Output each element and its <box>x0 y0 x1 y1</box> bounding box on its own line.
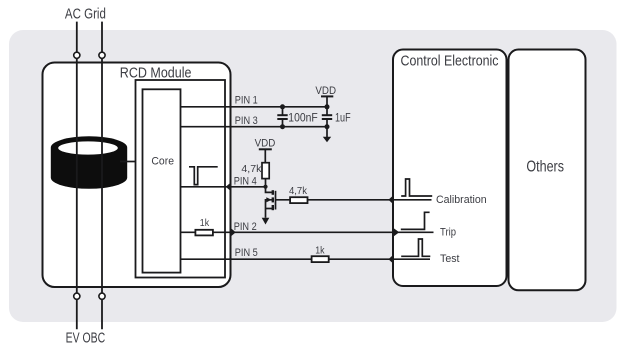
terminal circle top L <box>74 52 80 58</box>
terminal circle bottom L <box>74 293 80 299</box>
Q1 source down arrow <box>262 218 270 225</box>
arrow PIN4 at module edge (left) <box>226 183 231 192</box>
svg-text:VDD: VDD <box>255 137 276 149</box>
VDD symbol over capacitors <box>321 95 333 97</box>
wire PIN 2 / Trip <box>181 231 434 233</box>
wire PIN 4 <box>181 186 266 188</box>
arrow Trip at control box (right) <box>393 228 399 237</box>
svg-text:Trip: Trip <box>440 227 456 239</box>
Others box <box>509 50 586 291</box>
ground drop below PIN3 node <box>326 127 328 137</box>
resistor R4 1k on PIN5 <box>312 256 329 262</box>
capacitor C2 1uF <box>326 107 328 115</box>
svg-text:100nF: 100nF <box>288 111 317 125</box>
RCD Module box <box>43 63 231 288</box>
svg-text:1k: 1k <box>315 244 325 256</box>
svg-text:PIN 4: PIN 4 <box>234 176 257 188</box>
wire PIN 1 <box>181 106 328 108</box>
svg-text:Core: Core <box>151 156 174 168</box>
transistor Q1 MOSFET <box>266 187 276 218</box>
junction node PIN4/R1/Q1 <box>263 185 267 189</box>
core box <box>143 89 181 272</box>
wire PIN 3 <box>181 126 328 128</box>
svg-text:AC Grid: AC Grid <box>65 7 106 23</box>
capacitor C1 100nF <box>282 107 284 115</box>
svg-text:Test: Test <box>440 253 460 265</box>
Calibration pulse icon <box>401 179 432 196</box>
svg-text:PIN 1: PIN 1 <box>235 94 258 106</box>
svg-text:PIN 3: PIN 3 <box>235 115 258 127</box>
wire PIN 5 / Test <box>181 258 431 260</box>
arrow PIN2 at module edge (right) <box>231 228 236 237</box>
svg-text:PIN 2: PIN 2 <box>234 221 257 233</box>
svg-text:1uF: 1uF <box>335 111 351 125</box>
AC line L <box>76 22 78 330</box>
junction dots capacitors <box>280 104 285 109</box>
Test pulse icon <box>401 239 430 256</box>
svg-text:PIN 5: PIN 5 <box>235 247 258 259</box>
svg-text:VDD: VDD <box>315 85 336 97</box>
svg-text:Others: Others <box>526 159 564 176</box>
VDD symbol over R1 <box>259 148 272 150</box>
wire Calibration / gate <box>276 199 432 201</box>
svg-text:1k: 1k <box>200 217 210 229</box>
inverted pulse icon in RCD module <box>189 167 218 185</box>
Q1 body arrow <box>266 197 271 202</box>
resistor R3 1k on PIN2 <box>195 230 213 236</box>
terminal circle bottom N <box>99 293 105 299</box>
wire toroid to board <box>120 161 136 163</box>
resistor R2 4.7k horizontal <box>290 197 307 203</box>
toroid core <box>51 136 127 188</box>
svg-text:Control Electronic: Control Electronic <box>401 54 499 70</box>
AC line N <box>101 22 103 330</box>
Control Electronic box <box>393 50 507 287</box>
terminal circle top N <box>99 52 105 58</box>
arrow Calibration at control box (left) <box>388 195 393 204</box>
Trip step icon <box>401 212 430 229</box>
svg-text:4,7k: 4,7k <box>241 163 262 175</box>
inner board rect <box>136 80 226 278</box>
arrow Test at control box (left) <box>388 255 393 264</box>
resistor R1 4.7k vertical <box>262 163 269 179</box>
svg-text:EV OBC: EV OBC <box>66 330 106 346</box>
svg-text:4,7k: 4,7k <box>289 185 308 197</box>
svg-text:Calibration: Calibration <box>436 194 487 206</box>
